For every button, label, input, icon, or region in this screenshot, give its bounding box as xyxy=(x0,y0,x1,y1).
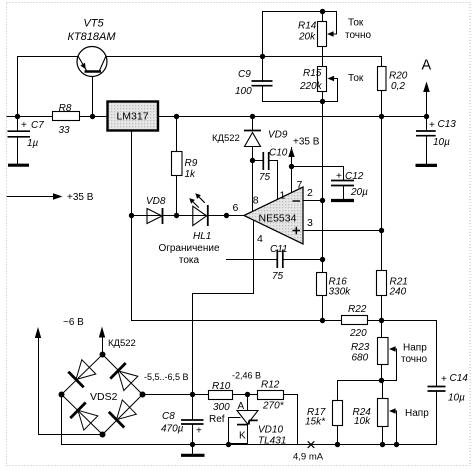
svg-text:Напр: Напр xyxy=(403,343,427,354)
wire: LM317 adj down and to R22 xyxy=(132,131,342,321)
arrow node A output xyxy=(423,82,430,93)
transistor VT5 xyxy=(77,47,107,77)
wire: pin2 to C11/R16 node xyxy=(322,201,324,321)
svg-text:точно: точно xyxy=(345,30,372,41)
svg-text:HL1: HL1 xyxy=(193,231,211,242)
svg-text:15k*: 15k* xyxy=(305,417,326,428)
capacitor C8 xyxy=(181,420,204,424)
svg-text:+: + xyxy=(21,120,27,131)
wire: op-amp pin4 negative supply xyxy=(193,221,254,420)
svg-text:Напр: Напр xyxy=(405,408,429,419)
wire: TL431 cathode to rail xyxy=(229,425,248,444)
svg-text:Ток: Ток xyxy=(348,73,364,84)
resistor R24 xyxy=(378,399,389,427)
arrow AC input top xyxy=(99,327,105,338)
svg-text:-5,5..-6,5 В: -5,5..-6,5 В xyxy=(144,372,189,382)
wire: op-amp output line xyxy=(132,215,245,217)
wire: R20 bottom to rail xyxy=(381,91,383,117)
svg-text:33: 33 xyxy=(58,125,70,136)
wire: R15 bottom down to pin2 net xyxy=(322,102,324,201)
capacitor C11 xyxy=(277,250,283,269)
current probe mark X xyxy=(308,441,315,448)
wire: R14 top / wiper loop xyxy=(263,12,337,57)
svg-text:R8: R8 xyxy=(59,103,72,114)
svg-text:R9: R9 xyxy=(185,158,198,169)
svg-text:R12: R12 xyxy=(261,380,280,391)
wire: R20/R21 vertical xyxy=(381,117,383,321)
wire: TL431 anode stub xyxy=(247,395,249,411)
svg-text:10µ: 10µ xyxy=(433,137,450,148)
wire: R24 wiper xyxy=(395,411,397,445)
wiper arrow R14 xyxy=(327,31,334,36)
svg-text:Ref: Ref xyxy=(209,414,225,425)
resistor R10 xyxy=(209,391,233,400)
svg-text:75: 75 xyxy=(259,172,271,183)
svg-text:TL431: TL431 xyxy=(258,436,286,447)
wire: pin8 xyxy=(252,161,254,212)
resistor R15 xyxy=(318,67,327,92)
wire: collector line to R20 xyxy=(106,57,382,67)
svg-text:+: + xyxy=(441,374,447,385)
svg-text:R20: R20 xyxy=(389,71,408,82)
svg-text:Ток: Ток xyxy=(348,18,364,29)
svg-text:0,2: 0,2 xyxy=(391,81,405,92)
wire: C10 link pin1 xyxy=(253,161,278,200)
diode VD9 xyxy=(244,131,261,147)
wire: R9 branch xyxy=(176,117,178,216)
wire: R24 branch xyxy=(382,381,384,445)
wire: R14-R15 chain xyxy=(322,12,324,102)
svg-text:220: 220 xyxy=(349,328,367,339)
svg-text:C14: C14 xyxy=(450,373,469,384)
resistor R20 xyxy=(378,67,387,91)
svg-text:C11: C11 xyxy=(270,244,288,255)
wire: C14 bottom stub xyxy=(436,391,438,445)
resistor R23 xyxy=(378,338,389,365)
svg-text:+35 В: +35 В xyxy=(293,137,320,148)
svg-text:КД522: КД522 xyxy=(108,338,136,349)
wire: C7 stubs xyxy=(17,117,19,164)
wire: AC input arrow top xyxy=(102,337,104,355)
svg-text:R10: R10 xyxy=(212,381,231,392)
wire: +35V main rail xyxy=(7,116,427,118)
wire: VD9 branch xyxy=(252,117,254,161)
svg-text:точно: точно xyxy=(401,354,428,365)
shunt reference VD10 TL431 xyxy=(237,411,258,425)
wire: R17 top link xyxy=(338,380,397,382)
svg-text:20k: 20k xyxy=(298,32,316,43)
svg-text:+: + xyxy=(429,120,435,131)
wire: transistor base lead xyxy=(92,72,94,117)
svg-text:А: А xyxy=(238,401,245,412)
capacitor C13 xyxy=(416,131,436,136)
wire: +35V node to pin7 and C12 xyxy=(292,148,344,193)
svg-text:3: 3 xyxy=(307,217,313,229)
capacitor C10 xyxy=(263,152,268,170)
svg-text:А: А xyxy=(422,58,432,74)
wiper arrow R15 xyxy=(328,76,335,81)
wire: R23 wiper xyxy=(395,349,397,381)
svg-text:C13: C13 xyxy=(438,119,457,130)
svg-text:220k: 220k xyxy=(299,81,323,92)
wire: pin3 to R21 node xyxy=(303,230,382,232)
svg-text:+: + xyxy=(196,426,202,437)
svg-text:C12: C12 xyxy=(345,171,364,182)
svg-text:270*: 270* xyxy=(262,401,285,412)
minus sign pin2 xyxy=(293,200,301,202)
svg-text:1: 1 xyxy=(280,190,286,202)
svg-text:R22: R22 xyxy=(348,304,367,315)
svg-text:C9: C9 xyxy=(238,69,251,80)
svg-text:C8: C8 xyxy=(162,411,175,422)
capacitor C12 xyxy=(331,181,354,186)
svg-text:+35 В: +35 В xyxy=(67,192,94,203)
svg-text:VT5: VT5 xyxy=(83,18,104,30)
svg-text:10k: 10k xyxy=(354,416,371,427)
bridge diode upper-left xyxy=(76,360,96,380)
diode VD8 xyxy=(147,208,163,224)
resistor R12 xyxy=(258,391,284,400)
svg-text:470µ: 470µ xyxy=(161,424,184,435)
node: pin2 wire xyxy=(303,200,323,202)
arrow AC input left xyxy=(35,327,41,338)
wire: A meter arrow stem xyxy=(426,91,428,117)
svg-text:VD9: VD9 xyxy=(268,130,288,141)
svg-text:R23: R23 xyxy=(351,342,370,353)
arrow +35V output xyxy=(53,193,63,200)
svg-text:2: 2 xyxy=(307,187,313,199)
resistor R14 xyxy=(318,22,327,47)
resistor R17 xyxy=(333,401,343,426)
svg-text:300: 300 xyxy=(213,402,230,413)
arrow +35V op-amp supply xyxy=(288,147,294,157)
svg-text:4: 4 xyxy=(257,233,263,245)
svg-text:1k: 1k xyxy=(185,169,197,180)
resistor R9 xyxy=(172,152,183,176)
bridge diode lower-left xyxy=(78,410,98,430)
svg-text:100: 100 xyxy=(235,86,252,97)
resistor R16 xyxy=(317,273,327,296)
regulator LM317 xyxy=(108,102,159,131)
ground xyxy=(181,454,205,457)
svg-text:+: + xyxy=(336,171,342,182)
wire: minus output line VDS2 to R10 R12 xyxy=(143,395,298,445)
svg-text:NE5534: NE5534 xyxy=(259,213,297,225)
bridge diode lower-right xyxy=(117,400,137,420)
svg-text:240: 240 xyxy=(389,287,407,298)
capacitor C9 xyxy=(252,81,273,86)
svg-text:20µ: 20µ xyxy=(350,187,368,198)
svg-text:K: K xyxy=(239,431,246,442)
wire: C13 stub xyxy=(426,117,428,164)
wire: C9 branch xyxy=(263,57,338,102)
bridge diode upper-right xyxy=(118,371,138,391)
common bar C13 xyxy=(416,164,438,167)
svg-text:R14: R14 xyxy=(298,21,317,32)
svg-text:7: 7 xyxy=(297,179,303,191)
wire: R22 right to C14 top xyxy=(368,321,437,387)
wiper arrow R24 xyxy=(389,408,396,413)
svg-text:VD8: VD8 xyxy=(146,196,166,207)
svg-text:~6 В: ~6 В xyxy=(63,317,84,328)
svg-text:8: 8 xyxy=(253,195,259,207)
svg-text:C10: C10 xyxy=(269,148,288,159)
wire: AC input arrow left xyxy=(39,337,103,435)
capacitor C14 xyxy=(428,387,446,392)
wire: TL431 ref to rail xyxy=(229,418,241,445)
wire: C11 horizontal xyxy=(227,259,323,261)
common bar C12 xyxy=(331,199,354,202)
svg-text:КТ818АМ: КТ818АМ xyxy=(67,31,116,43)
LED HL1 xyxy=(189,193,208,226)
resistor R8 xyxy=(53,112,80,121)
wire: +35V output arrow line xyxy=(7,196,54,198)
wire: R15 wiper xyxy=(334,79,338,102)
svg-text:R15: R15 xyxy=(303,68,322,79)
wire: R23 chain xyxy=(381,321,383,381)
svg-text:VD10: VD10 xyxy=(258,425,283,436)
plus sign pin3 xyxy=(293,227,301,235)
svg-text:6: 6 xyxy=(233,202,239,214)
svg-text:LM317: LM317 xyxy=(116,111,148,123)
capacitor C7 xyxy=(8,131,31,137)
common bar C7 xyxy=(8,164,29,167)
svg-text:Ограничение: Ограничение xyxy=(158,243,220,254)
svg-text:4,9 mA: 4,9 mA xyxy=(293,452,324,463)
svg-text:330k: 330k xyxy=(329,287,352,298)
svg-text:75: 75 xyxy=(272,271,284,282)
svg-text:тока: тока xyxy=(179,255,200,266)
wiper arrow R23 xyxy=(389,346,396,351)
wire: VDS2 left corner drop xyxy=(61,395,63,445)
svg-text:C7: C7 xyxy=(31,120,44,131)
wire: common bottom rail xyxy=(62,444,437,446)
wire: C8 bottom stub xyxy=(192,425,194,445)
svg-text:-2,46 В: -2,46 В xyxy=(232,371,261,381)
wire: ground stub xyxy=(192,445,194,454)
wire: left vertical to emitter line xyxy=(18,57,79,117)
op-amp U1 NE5534 xyxy=(244,187,303,244)
svg-text:10µ: 10µ xyxy=(448,393,465,404)
svg-text:680: 680 xyxy=(352,353,369,364)
svg-text:1µ: 1µ xyxy=(27,138,39,149)
svg-text:КД522: КД522 xyxy=(212,133,240,144)
resistor R22 xyxy=(342,316,368,325)
wire: R17 branch xyxy=(337,381,339,445)
bridge rectifier VDS2 xyxy=(62,355,143,435)
resistor R21 xyxy=(377,271,387,296)
wire: C12 lower stub xyxy=(343,186,345,200)
svg-text:VDS2: VDS2 xyxy=(90,391,118,403)
